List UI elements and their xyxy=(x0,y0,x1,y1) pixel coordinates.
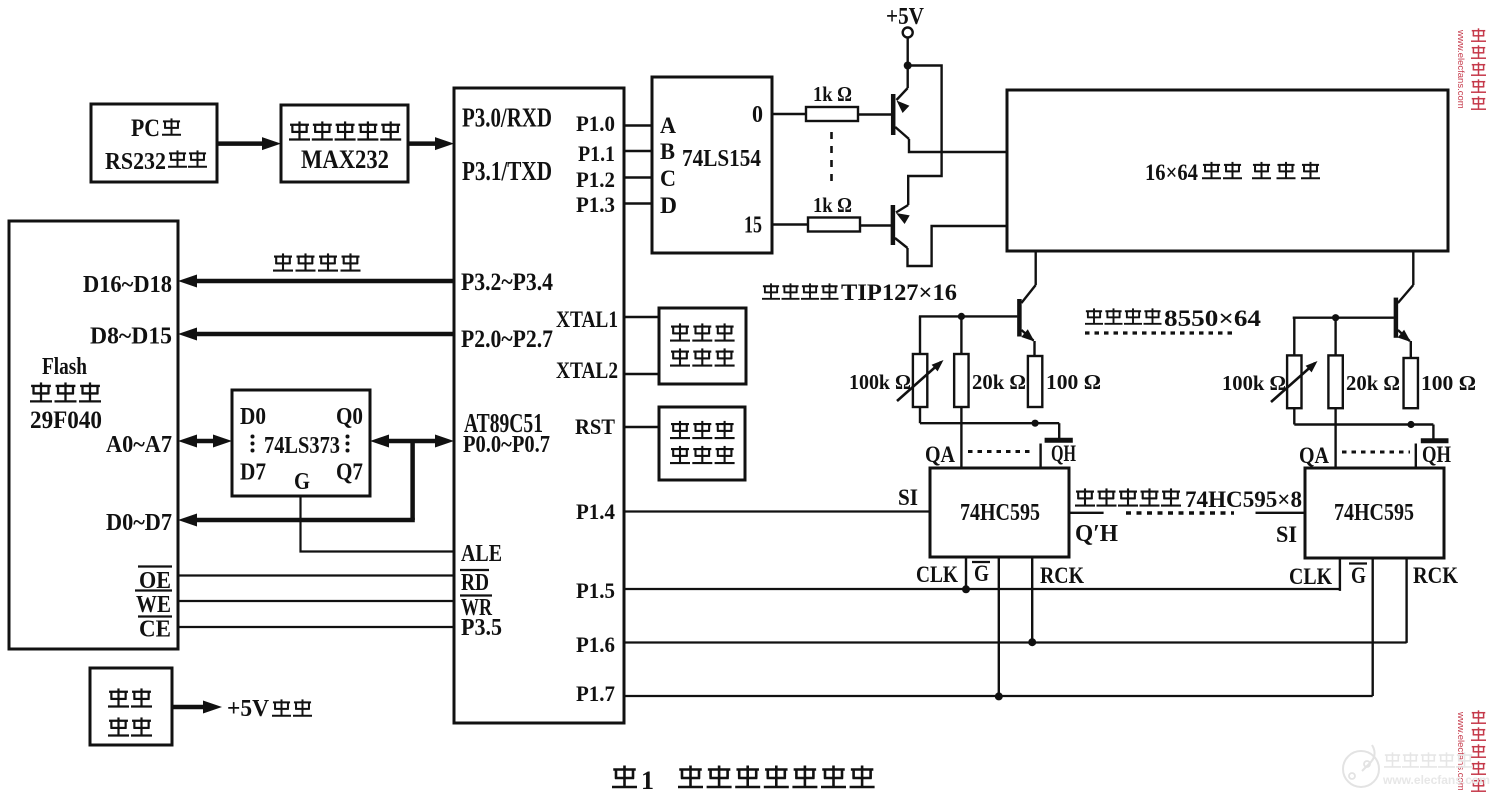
junction R8 bottom dot xyxy=(1407,421,1414,428)
svg-text:TIP127×16: TIP127×16 xyxy=(841,280,957,305)
svg-text:D8~D15: D8~D15 xyxy=(90,324,172,350)
svg-text:XTAL2: XTAL2 xyxy=(556,358,618,383)
svg-text:QH: QH xyxy=(1051,441,1076,466)
resistor R1 1k ohm xyxy=(806,107,858,121)
dashed line outputs 1..14 xyxy=(830,132,833,182)
svg-text:Q7: Q7 xyxy=(336,460,363,486)
junction base rail dot xyxy=(958,313,965,320)
svg-text:QH: QH xyxy=(1422,442,1451,467)
svg-text:P1.5: P1.5 xyxy=(576,578,615,603)
wire RST to clock 2 xyxy=(624,426,659,428)
svg-text:P3.2~P3.4: P3.2~P3.4 xyxy=(461,269,553,296)
resistor R2 1k ohm xyxy=(808,218,860,232)
svg-text:P1.4: P1.4 xyxy=(576,499,615,524)
svg-text:+5V: +5V xyxy=(227,696,270,722)
svg-text:RS232: RS232 xyxy=(105,149,166,175)
wire rail to R6 top xyxy=(1293,318,1295,356)
wire P1.3 to D xyxy=(624,202,652,204)
dotted line QA..QH 2 xyxy=(1342,451,1410,454)
watermark red text bottom right xyxy=(1471,710,1486,723)
wire P1.5 CLK bus xyxy=(624,588,1340,590)
svg-text:Flash: Flash xyxy=(42,354,87,380)
label MAX232 box line1 hanzi xyxy=(289,121,310,139)
svg-text:29F040: 29F040 xyxy=(30,407,102,434)
wire CLK pin 1 xyxy=(965,557,967,589)
svg-text:G: G xyxy=(294,469,310,495)
wire RCK pin 2 xyxy=(1405,558,1407,643)
svg-text:100 Ω: 100 Ω xyxy=(1421,371,1476,395)
svg-text:RST: RST xyxy=(575,414,615,439)
svg-text:P1.0: P1.0 xyxy=(576,111,615,136)
wire SI stub shift register 2 xyxy=(1256,512,1306,514)
svg-text:100k Ω: 100k Ω xyxy=(1222,371,1286,395)
wire RCK pin 1 xyxy=(1031,557,1033,642)
resistor R5 100 ohm xyxy=(1028,356,1042,407)
transistor Q1 TIP127 xyxy=(891,94,896,135)
svg-text:SI: SI xyxy=(1276,522,1297,547)
resistor R6 100k variable xyxy=(1287,355,1301,408)
wire P1.1 to B xyxy=(624,150,652,152)
wire bottom rail left group xyxy=(920,422,1059,424)
wire QA pin shift register 2 xyxy=(1334,408,1336,468)
wire arrow 74LS373 to P0.0-P0.7 bidirectional xyxy=(384,439,441,444)
wire R6 bottom xyxy=(1293,408,1295,424)
label row driver TIP127x16 xyxy=(762,283,780,298)
svg-text:SI: SI xyxy=(898,485,918,510)
caption figure 1 hanzi xyxy=(612,766,637,788)
IC U6 74HC595 shift register 2 xyxy=(1305,468,1444,558)
wire arrow D0-D7 bus xyxy=(196,518,415,523)
wire arrow P3.2-P3.4 to D16-D18 page select xyxy=(196,279,454,284)
resistor R4 20k xyxy=(954,354,968,407)
dotted underline field driver xyxy=(1085,331,1235,334)
junction base rail dot 2 xyxy=(1332,314,1339,321)
IC U5 74HC595 shift register 1 xyxy=(930,468,1069,557)
block clock oscillator 1 xyxy=(659,308,746,384)
wire P1.4 to SI xyxy=(624,510,930,512)
clock oscillator 1 text hanzi xyxy=(670,323,690,340)
wire P1.0 to A xyxy=(624,124,652,126)
transistor Q4 8550 field driver xyxy=(1394,298,1399,338)
svg-text:15: 15 xyxy=(744,213,762,239)
wire R1 to Q1 base xyxy=(858,113,891,115)
svg-text:XTAL1: XTAL1 xyxy=(556,307,618,332)
block power supply circuit xyxy=(90,668,172,745)
block clock oscillator 2 xyxy=(659,407,745,480)
svg-text:74HC595: 74HC595 xyxy=(960,500,1040,526)
svg-text:74LS154: 74LS154 xyxy=(682,146,761,172)
caption title hanzi xyxy=(678,766,703,788)
wire XTAL1 to clock 1 xyxy=(624,316,659,318)
wire arrow PC to MAX232 xyxy=(217,141,266,146)
svg-text:A: A xyxy=(660,113,676,138)
wire ALE to 74LS373 G pin xyxy=(301,496,455,552)
IC U4 74LS373 latch xyxy=(232,390,370,496)
power box text hanzi xyxy=(108,688,129,706)
wire output 15 of 74LS154 xyxy=(772,223,808,225)
wire arrow power to +5V xyxy=(172,705,208,710)
svg-text:RCK: RCK xyxy=(1413,563,1458,588)
svg-text:P1.3: P1.3 xyxy=(576,192,615,217)
transistor Q3 8550 field driver xyxy=(1017,299,1022,337)
wire Q4 base rail xyxy=(1293,317,1394,319)
svg-text:P1.6: P1.6 xyxy=(576,632,615,657)
wire P1.7 G bus xyxy=(624,695,1373,697)
svg-text:P1.2: P1.2 xyxy=(576,167,615,192)
svg-text:www.elecfans.com: www.elecfans.com xyxy=(1455,29,1466,109)
svg-text:D16~D18: D16~D18 xyxy=(83,272,172,298)
svg-text:MAX232: MAX232 xyxy=(301,145,389,174)
wire WE to WR xyxy=(178,600,454,602)
wire bottom rail right group xyxy=(1294,423,1433,425)
Flash label hanzi storage xyxy=(30,382,52,401)
svg-text:1: 1 xyxy=(641,766,654,795)
svg-text:Q0: Q0 xyxy=(336,404,363,430)
IC U3 Flash memory 29F040 xyxy=(9,221,178,649)
wire P0 bus vertical to D0-D7 xyxy=(410,441,415,520)
74LS373 name with dots xyxy=(251,435,255,439)
svg-text:PC: PC xyxy=(131,115,160,142)
wire OE to RD xyxy=(178,574,454,576)
watermark red text top right xyxy=(1471,28,1486,41)
resistor R8 100 ohm xyxy=(1404,358,1418,408)
svg-text:1k Ω: 1k Ω xyxy=(813,82,852,106)
wire output 0 of 74LS154 xyxy=(772,113,806,115)
svg-text:P3.5: P3.5 xyxy=(461,615,502,641)
svg-text:D0: D0 xyxy=(240,404,266,430)
wire QA pin shift register 1 xyxy=(960,407,962,468)
svg-text:B: B xyxy=(660,139,675,164)
IC U1 AT89C51 MCU xyxy=(454,88,624,723)
svg-text:D0~D7: D0~D7 xyxy=(106,510,172,536)
label field driver 8550x64 xyxy=(1085,308,1103,323)
ground bar left xyxy=(1045,438,1073,443)
junction R5 bottom dot xyxy=(1032,420,1039,427)
svg-text:Q′H: Q′H xyxy=(1075,521,1118,547)
resistor R3 100k variable xyxy=(913,354,927,407)
svg-text:D: D xyxy=(660,193,677,218)
terminal +5V xyxy=(903,28,913,38)
svg-text:74HC595×8: 74HC595×8 xyxy=(1185,487,1302,512)
dotted line QA..QH 1 xyxy=(968,450,1034,453)
svg-text:ALE: ALE xyxy=(461,541,502,567)
wire arrow A0-A7 to 74LS373 bidirectional xyxy=(193,439,218,444)
svg-text:+5V: +5V xyxy=(886,4,925,30)
svg-text:D7: D7 xyxy=(240,460,266,486)
wire Q3 base rail xyxy=(919,315,1018,317)
svg-text:74HC595: 74HC595 xyxy=(1334,500,1414,526)
svg-text:20k Ω: 20k Ω xyxy=(972,370,1026,394)
svg-text:P3.1/TXD: P3.1/TXD xyxy=(462,156,552,186)
watermark embossed hanzi text xyxy=(1384,752,1401,767)
dotted cascade line xyxy=(1126,511,1234,514)
wire Q4 emitter to R8 top xyxy=(1410,341,1412,358)
wire P1.2 to C xyxy=(624,176,652,178)
svg-text:P2.0~P2.7: P2.0~P2.7 xyxy=(461,326,553,353)
wire CE to P3.5 xyxy=(178,626,454,628)
svg-text:C: C xyxy=(660,166,676,191)
resistor R7 20k xyxy=(1328,355,1342,408)
block MAX232 serial module xyxy=(281,105,408,182)
watermark embossed logo bottom right xyxy=(1343,751,1379,787)
svg-text:P3.0/RXD: P3.0/RXD xyxy=(462,103,552,133)
wire QH pin shift register 1 xyxy=(1039,444,1041,469)
wire Q'H stub xyxy=(1069,512,1104,514)
svg-text:20k Ω: 20k Ω xyxy=(1346,371,1400,395)
svg-text:A0~A7: A0~A7 xyxy=(106,432,172,458)
wire elbow to ground 2 xyxy=(1432,425,1434,439)
svg-text:QA: QA xyxy=(925,442,955,467)
wire G pin 2 xyxy=(1371,558,1373,696)
svg-text:QA: QA xyxy=(1299,443,1329,468)
wire CLK pin 2 xyxy=(1339,558,1341,591)
wire +5V to Q2 emitter branch xyxy=(908,66,942,206)
svg-text:CE: CE xyxy=(139,617,171,643)
svg-text:RCK: RCK xyxy=(1040,563,1084,588)
svg-text:CLK: CLK xyxy=(1289,564,1332,589)
svg-text:100k Ω: 100k Ω xyxy=(849,370,911,394)
wire XTAL2 to clock 1 xyxy=(624,373,659,375)
svg-text:WE: WE xyxy=(136,592,171,618)
svg-text:CLK: CLK xyxy=(916,562,958,587)
svg-text:P1.1: P1.1 xyxy=(578,141,615,166)
block PC (PC-RS232 serial port) xyxy=(91,104,217,182)
IC U2 74LS154 decoder xyxy=(652,77,772,253)
wire P1.6 RCK bus xyxy=(624,641,1407,643)
wire Q3 emitter to R5 top xyxy=(1033,341,1035,356)
svg-text:P0.0~P0.7: P0.0~P0.7 xyxy=(463,432,550,458)
svg-text:0: 0 xyxy=(752,102,763,128)
wire +5V down xyxy=(907,38,909,66)
svg-text:1k Ω: 1k Ω xyxy=(813,193,852,217)
transistor Q2 TIP127 xyxy=(891,205,896,245)
wire rail to R3 top xyxy=(919,316,921,354)
svg-text:16×64: 16×64 xyxy=(1145,160,1198,185)
label shift register 74HC595x8 xyxy=(1075,488,1095,505)
junction +5V node xyxy=(904,62,912,70)
wire arrow MAX232 to MCU P3.0 xyxy=(408,141,441,146)
wire arrow P2.0-P2.7 to D8-D15 xyxy=(196,332,454,337)
wire R2 to Q2 base xyxy=(860,224,891,226)
wire QH pin shift register 2 xyxy=(1415,444,1417,469)
svg-text:100 Ω: 100 Ω xyxy=(1046,370,1101,394)
svg-text:74LS373: 74LS373 xyxy=(264,433,340,459)
svg-text:G: G xyxy=(974,561,989,586)
ground bar right xyxy=(1421,438,1449,443)
svg-text:P1.7: P1.7 xyxy=(576,681,615,706)
svg-text:G: G xyxy=(1351,563,1366,588)
svg-text:www.elecfans.com: www.elecfans.com xyxy=(1382,773,1490,787)
svg-text:RD: RD xyxy=(461,570,489,596)
clock oscillator 2 text hanzi xyxy=(670,421,690,438)
label page-select hanzi xyxy=(273,253,293,270)
wire rail to R4 top xyxy=(960,316,962,354)
junction CLK1 dot xyxy=(962,585,970,593)
wire rail to R7 top xyxy=(1334,318,1336,356)
junction G1 dot xyxy=(995,692,1003,700)
junction RCK1 dot xyxy=(1028,638,1036,646)
block 16x64 dot-matrix display xyxy=(1007,90,1448,251)
wire R3 bottom xyxy=(919,407,921,423)
wire elbow to ground xyxy=(1058,423,1060,438)
svg-text:8550×64: 8550×64 xyxy=(1164,306,1262,331)
wire G pin 1 xyxy=(998,557,1000,696)
